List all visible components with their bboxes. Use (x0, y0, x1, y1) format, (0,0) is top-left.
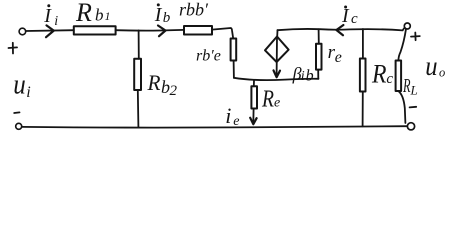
wire Rb2 bottom (137, 90, 140, 127)
polarity plus right (411, 33, 420, 41)
svg-text:rb′e: rb′e (196, 47, 221, 64)
svg-text:b: b (95, 6, 104, 25)
svg-text:L: L (410, 83, 418, 98)
svg-text:R: R (147, 70, 161, 95)
controlled source beta-ib diamond (265, 37, 289, 63)
svg-text:c: c (351, 11, 358, 27)
resistor Re (251, 86, 257, 108)
svg-text:I: I (341, 5, 350, 27)
svg-text:R: R (75, 0, 92, 27)
svg-text:i: i (301, 69, 305, 84)
svg-text:e: e (233, 114, 239, 129)
resistor RL (396, 61, 402, 92)
svg-text:i: i (225, 103, 231, 128)
wire Rc top (362, 29, 364, 59)
svg-text:I: I (43, 5, 52, 27)
wire rbb' to b' corner (212, 28, 233, 39)
wire collector rail (278, 28, 405, 31)
svg-text:rbb′: rbb′ (179, 0, 209, 19)
svg-text:u: u (425, 51, 437, 81)
controlled source arrow down (276, 37, 278, 77)
resistor Rb2 (134, 59, 141, 90)
terminal output minus (407, 123, 414, 130)
polarity minus left (14, 111, 19, 114)
polarity plus left (9, 43, 18, 54)
svg-text:I: I (154, 4, 163, 26)
svg-text:i: i (26, 84, 30, 101)
wire input to Rb1 (26, 29, 74, 32)
resistor rb'e (231, 39, 237, 61)
wire Rc bottom (362, 92, 364, 127)
svg-text:b: b (306, 67, 314, 84)
svg-text:u: u (13, 70, 26, 101)
terminal input plus (19, 28, 26, 35)
wire emitter rail (234, 78, 319, 80)
wire Rb2 top (138, 30, 140, 58)
current arrow Ic (336, 25, 343, 35)
svg-text:i: i (54, 14, 58, 29)
svg-text:b: b (163, 10, 171, 26)
svg-text:1: 1 (105, 9, 111, 23)
svg-text:R: R (261, 86, 274, 112)
resistor Rc (360, 59, 366, 92)
svg-text:o: o (439, 66, 445, 80)
svg-text:e: e (274, 96, 280, 111)
wire ground rail (22, 126, 407, 127)
wire Re top stub (253, 81, 255, 87)
svg-text:e: e (335, 49, 342, 66)
current arrow Ib (158, 26, 166, 37)
resistor Rb1 (74, 26, 116, 34)
wire Re bottom with ie arrow (252, 109, 254, 124)
controlled source beta-ib stub (276, 30, 278, 36)
current arrow Ii (46, 25, 54, 37)
svg-text:2: 2 (170, 83, 178, 99)
resistor re (316, 44, 322, 70)
wire re top stub (318, 29, 320, 43)
terminal input minus (16, 123, 22, 129)
polarity minus right (410, 106, 417, 109)
svg-text:R: R (402, 75, 410, 97)
wire Rb1 to rbb' (116, 29, 184, 32)
wire RL to output bottom (398, 91, 405, 123)
svg-text:c: c (386, 71, 393, 87)
wire rb'e down to emitter rail (233, 61, 235, 78)
resistor rbb' (184, 26, 212, 35)
svg-text:R: R (371, 60, 387, 89)
terminal output plus (404, 23, 410, 29)
wire re bottom stub (317, 70, 319, 79)
wire output top to RL (398, 29, 406, 61)
